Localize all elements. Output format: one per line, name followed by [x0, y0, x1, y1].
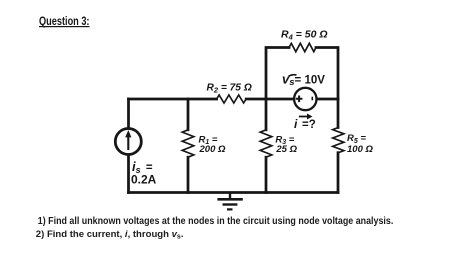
resistor R4 zigzag — [289, 43, 316, 51]
svg-text:vs= 10V: vs= 10V — [282, 72, 325, 89]
wire R1 branch bottom — [187, 157, 190, 192]
current i arrow — [299, 114, 313, 120]
svg-text:1) Find all unknown voltages a: 1) Find all unknown voltages at the node… — [38, 216, 394, 227]
svg-text:i =?: i =? — [294, 117, 316, 131]
vs overline flourish — [289, 75, 297, 77]
svg-text:R4 = 50 Ω: R4 = 50 Ω — [281, 29, 328, 42]
wire right vertical below R5 — [337, 153, 340, 193]
voltage source vs circle — [294, 88, 316, 110]
vs minus tick — [311, 97, 313, 101]
wire top rail vs to right — [317, 98, 338, 101]
wire top rail left of R2 — [129, 98, 217, 101]
current source arrow — [125, 130, 131, 150]
resistor R3 zigzag — [260, 130, 272, 157]
resistor R5 zigzag — [333, 128, 344, 153]
wire R3 branch bottom — [265, 157, 268, 192]
svg-text:25 Ω: 25 Ω — [275, 144, 297, 155]
resistor R2 zigzag — [217, 95, 247, 103]
wire R1 branch top — [187, 99, 190, 130]
wire bottom rail — [129, 191, 339, 194]
svg-text:2) Find the current, i, throug: 2) Find the current, i, through vs. — [36, 229, 184, 241]
heading Question 3: — [39, 16, 90, 28]
svg-text:100 Ω: 100 Ω — [347, 144, 373, 155]
svg-text:R2 = 75 Ω: R2 = 75 Ω — [207, 83, 252, 95]
resistor R1 zigzag — [182, 130, 194, 157]
current source I circle — [115, 129, 141, 155]
wire R3 branch top — [265, 99, 268, 130]
wire right vertical above R5 — [337, 99, 340, 128]
wire left vertical below current source — [127, 155, 130, 192]
svg-text:0.2A: 0.2A — [131, 173, 157, 187]
svg-text:200 Ω: 200 Ω — [199, 144, 226, 155]
wire R4 loop left vertical — [266, 48, 289, 100]
wire top rail R2 to vs — [246, 98, 293, 101]
wire left vertical above current source — [127, 99, 130, 128]
vs plus sign — [296, 96, 303, 103]
wire R4 right to corner — [316, 48, 338, 100]
ground — [217, 193, 242, 210]
